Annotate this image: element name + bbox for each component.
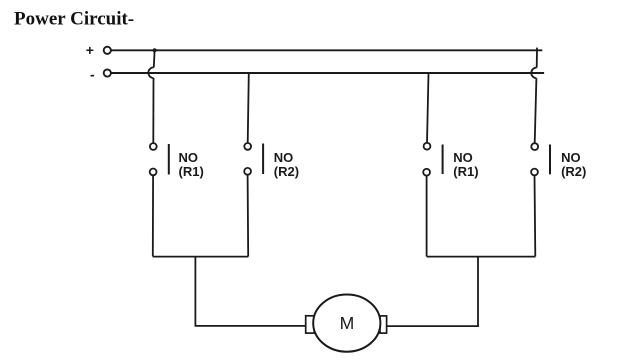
svg-text:(R2): (R2) — [274, 164, 299, 179]
wire hop over - rail (branch4) — [531, 68, 536, 79]
svg-text:NO: NO — [561, 150, 581, 165]
svg-text:M: M — [340, 313, 355, 333]
svg-text:+: + — [86, 42, 94, 58]
wire branch2 lower — [247, 175, 250, 257]
svg-text:NO: NO — [179, 150, 199, 165]
motor M1 brush terminal right — [380, 316, 387, 333]
terminal + (circle) — [104, 47, 111, 54]
wire motor right lead — [387, 325, 479, 327]
svg-text:(R2): (R2) — [561, 164, 586, 179]
wire branch4 to contact 4 — [535, 78, 537, 143]
motor M1 body — [313, 295, 380, 352]
wire branch1 lower — [152, 175, 154, 256]
node junction J1 on + rail — [153, 48, 157, 52]
contact K4 NO (R2) — [531, 143, 550, 175]
svg-text:NO: NO — [453, 150, 473, 165]
svg-text:NO: NO — [274, 150, 294, 165]
wire left join — [153, 256, 249, 258]
wire branch3 lower — [426, 176, 428, 257]
motor M1 brush terminal left — [306, 316, 315, 333]
wire branch3 from - rail — [427, 73, 429, 143]
contact K3 NO (R1) — [423, 143, 442, 176]
wire left drop — [194, 257, 196, 326]
svg-text:(R1): (R1) — [453, 164, 478, 179]
svg-text:(R1): (R1) — [179, 164, 204, 179]
contact K1 NO (R1) — [150, 143, 169, 175]
contact K2 NO (R2) — [244, 143, 263, 175]
svg-text:Power Circuit-: Power Circuit- — [14, 8, 134, 29]
terminal - (circle) — [104, 69, 111, 76]
wire branch4 from + rail — [536, 50, 538, 67]
wire right drop — [477, 257, 479, 327]
node junction J2 at + rail right end — [536, 48, 538, 51]
wire branch4 lower — [534, 175, 537, 256]
wire + rail — [111, 49, 542, 51]
wire motor left lead — [195, 325, 306, 327]
wire branch2 from - rail — [248, 73, 249, 143]
wire branch1 to contact 1 — [152, 78, 154, 143]
wire right join — [427, 256, 536, 258]
wire - rail — [111, 72, 544, 74]
wire hop over - rail (branch1) — [148, 67, 153, 78]
svg-text:-: - — [90, 66, 95, 82]
wire branch1 from + rail — [153, 50, 156, 67]
